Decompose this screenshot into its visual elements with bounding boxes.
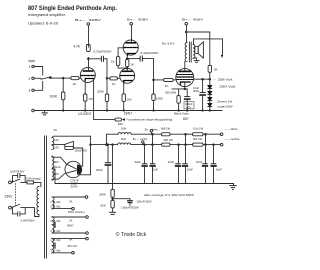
capacitor 10uF 400V screen [202, 78, 204, 80]
wire W1 to rectifier filament [73, 148, 82, 166]
pentode 807 grid g1 [177, 74, 193, 76]
svg-text:22uF: 22uF [152, 168, 159, 172]
wire raw heater line [52, 136, 91, 137]
wire feedback from V1 cathode [94, 79, 115, 120]
svg-text:B+ ← rechts: B+ ← rechts [133, 137, 148, 141]
ground symbol amp [44, 111, 46, 113]
pentode 807 plate [179, 70, 190, 72]
svg-text:10uF: 10uF [216, 167, 223, 171]
resistor 240K divider [111, 189, 114, 197]
svg-text:4,7K: 4,7K [74, 44, 81, 48]
svg-text:© Triode Dick: © Triode Dick [116, 231, 147, 238]
terminal B+ rechts out [220, 143, 223, 146]
resistor 5k6 1W rechts [193, 143, 203, 146]
svg-text:390/10W: 390/10W [165, 90, 177, 94]
svg-text:15uF: 15uF [196, 160, 203, 164]
transformer PT primary coil [37, 187, 39, 215]
wire stopper to V2 grid [117, 77, 120, 79]
wire OT primary to 807 plate [184, 62, 186, 71]
svg-text:0,047/630V: 0,047/630V [10, 169, 24, 173]
mains terminal L [9, 181, 12, 184]
svg-text:6k8 1W: 6k8 1W [161, 127, 171, 131]
wire jack2 to switch [34, 77, 40, 79]
triode V1 cathode [85, 79, 93, 81]
feedback arrow [122, 118, 125, 121]
svg-text:100uF/160V: 100uF/160V [137, 199, 152, 203]
svg-text:1,5V: 1,5V [53, 138, 59, 142]
winding W1 rectifier heater [52, 138, 54, 150]
svg-text:40V: 40V [186, 105, 191, 109]
svg-text:B+← 308V: B+← 308V [75, 18, 101, 22]
capacitor C1 0.33uF/500V [100, 56, 102, 61]
svg-text:6SN7: 6SN7 [124, 112, 132, 116]
svg-text:22uF: 22uF [168, 160, 175, 164]
svg-text:380V: 380V [52, 160, 59, 164]
wire node down to grid row [106, 59, 108, 94]
triode V2 grid [124, 47, 137, 49]
svg-text:350mA: 350mA [52, 165, 61, 169]
svg-text:6SN7: 6SN7 [67, 224, 74, 228]
triode V2 plate [126, 42, 135, 44]
input jack 1 [32, 65, 34, 67]
wire W3 top [52, 196, 85, 198]
svg-text:1K: 1K [73, 82, 77, 86]
wire 220K to ground bus [106, 102, 108, 111]
svg-text:1K5: 1K5 [126, 98, 132, 102]
capacitor bank pair1 right 22uF [152, 133, 154, 135]
wire 1K to V1 grid [79, 77, 81, 79]
capacitor bank pair2 left 22uF [178, 144, 180, 146]
resistor 390R/10W 807 cathode [178, 89, 180, 96]
resistor 220K [105, 94, 108, 102]
resistor 62K divider [111, 200, 114, 208]
svg-text:Intergrated amplifier.: Intergrated amplifier. [28, 13, 66, 17]
wire to primary bottom [21, 208, 39, 217]
svg-text:1,75 Volt: 1,75 Volt [50, 200, 60, 204]
ground symbol psu [233, 184, 235, 186]
switch mains top [11, 179, 19, 182]
snubber cap bottom 0,047/630V [13, 208, 18, 214]
resistor 1K5 V3 cathode [122, 94, 125, 102]
triode V3 cathode [124, 81, 133, 83]
wire W2 center tap to ground [52, 169, 55, 184]
input jack 2 [32, 77, 34, 79]
wire 1K5 to ground [123, 101, 125, 110]
svg-text:3A: 3A [54, 128, 58, 132]
node plate V1 junction [88, 58, 90, 60]
wire jack1 to contact [34, 67, 42, 76]
svg-text:100K: 100K [156, 96, 163, 100]
svg-text:Black Gate: Black Gate [174, 112, 189, 116]
ground bus amp [32, 109, 35, 112]
transformer PT core [44, 136, 46, 258]
winding W3 heater 6SN7 [52, 197, 54, 209]
wire SRPP out to C2 [127, 58, 140, 60]
wire W1 mid tap [52, 144, 64, 146]
resistor 1K 807 grid stopper [164, 78, 174, 81]
svg-text:*voorkeure tegenkoppeling: *voorkeure tegenkoppeling [126, 117, 172, 121]
resistor 5K screen [208, 65, 211, 72]
wire secondary top to feedback tap [194, 39, 223, 55]
svg-text:3,15 Volt: 3,15 Volt [50, 219, 60, 223]
power supply main rail row2 [91, 144, 118, 146]
wire plate node to C1 [88, 58, 101, 60]
svg-text:10H: 10H [121, 137, 127, 141]
triode V1 grid [81, 75, 94, 77]
wire 5K to screen node [209, 72, 211, 79]
svg-text:Ra: 5-8 K: Ra: 5-8 K [162, 42, 175, 46]
wire to 807 grid stopper [154, 79, 164, 81]
node screen feed junction [185, 31, 187, 33]
svg-text:3: 3 [29, 89, 31, 93]
power supply rail row1 links [107, 134, 119, 144]
resistor 100K input [62, 92, 65, 100]
svg-text:807 Single Ended Penthode Amp.: 807 Single Ended Penthode Amp. [28, 5, 117, 12]
node B+ riser junction [90, 144, 92, 146]
capacitor C2 0.33uF/500V [139, 56, 141, 61]
svg-text:3,15 Volt: 3,15 Volt [50, 249, 60, 253]
svg-text:0,33uF/630V: 0,33uF/630V [141, 51, 159, 55]
svg-text:2A: 2A [69, 200, 72, 204]
resistor 5k6 1W links [193, 133, 203, 136]
node input junction [62, 77, 64, 79]
ground speaker return [193, 57, 196, 59]
svg-text:5k6 1W: 5k6 1W [193, 137, 203, 141]
svg-text:Updated: 6-9-20: Updated: 6-9-20 [28, 22, 58, 26]
zener stack [208, 86, 212, 107]
wire 1K5 to ground [84, 101, 86, 110]
resistor 6k8 1W rechts [162, 143, 170, 146]
ground divider [112, 208, 114, 212]
svg-text:1K: 1K [111, 60, 115, 64]
svg-text:230V: 230V [5, 194, 14, 198]
wire to grid stopper V2 [107, 77, 110, 79]
svg-text:Zeners 1W: Zeners 1W [218, 100, 233, 104]
wire B+ riser [90, 136, 92, 175]
capacitor 100uF 40V cathode bypass [186, 89, 188, 96]
node divider junction [112, 198, 114, 200]
wire 1K cathode res to junction [126, 67, 128, 71]
svg-text:6SN7 (buizen): 6SN7 (buizen) [68, 210, 85, 214]
triode V1 plate [84, 70, 93, 72]
svg-text:5 (x) 1W: 5 (x) 1W [193, 127, 204, 131]
wire V2 grid to 1K grid resistor [118, 48, 124, 57]
pentode 807 envelope [176, 69, 194, 87]
transformer OT primary [185, 43, 187, 62]
node 807 grid junction [153, 79, 155, 81]
wire node to 1K [63, 77, 71, 79]
svg-text:380V: 380V [52, 172, 59, 176]
svg-text:B+← 450V: B+← 450V [182, 18, 203, 22]
svg-text:1,5V: 1,5V [53, 145, 59, 149]
resistor W1 parallel [64, 145, 66, 147]
svg-text:1: 1 [29, 65, 31, 69]
wire input node down to 100K [62, 78, 64, 92]
resistor 4.7K [86, 45, 90, 52]
choke 10H links [118, 133, 131, 135]
svg-text:240K: 240K [99, 192, 106, 196]
svg-text:Input: Input [28, 59, 35, 63]
svg-text:62K: 62K [101, 203, 106, 207]
node SRPP output tap [126, 58, 128, 60]
capacitor bank pair3 right 10uF [213, 144, 215, 146]
wire B+358 to V2 plate [131, 25, 133, 42]
fuse 0,5A [21, 181, 27, 183]
triode V3 grid [121, 75, 134, 77]
resistor 6k8 1W links [162, 133, 170, 136]
wire W2 top to rectifier plate [52, 157, 66, 163]
node B+ 358V terminal [130, 22, 133, 25]
transformer OT core [189, 42, 191, 62]
wire V2 cathode down [126, 54, 128, 59]
resistor 1K V2 grid [116, 57, 119, 66]
svg-text:100uF/550V: 100uF/550V [121, 205, 139, 209]
svg-text:1K: 1K [165, 84, 169, 88]
wire rectifier filament to B+ riser [80, 174, 91, 176]
triode V2 cathode [127, 54, 135, 56]
feedback tap arrow [221, 55, 223, 58]
pentode 807 grid g2 [177, 76, 193, 78]
wire jack3 to contact [34, 82, 42, 91]
bus junction dots [63, 110, 64, 111]
capacitor bank pair2 right 15uF [185, 133, 187, 135]
svg-text:100uF/25V: 100uF/25V [75, 149, 88, 153]
resistor 1K grid stopper V1 [71, 77, 79, 80]
wire B+308 to R 4.7K [88, 25, 90, 47]
winding W4 heater 6SN7 CT [52, 217, 54, 233]
speaker [195, 46, 198, 53]
wire V3 cathode to 1K5 [123, 82, 125, 94]
svg-text:33uF: 33uF [135, 160, 142, 164]
center tap W5 [52, 245, 55, 247]
switch W1 [64, 142, 73, 145]
capacitor bank pair1 left 33uF [144, 144, 146, 146]
wire C1 to node [104, 58, 107, 60]
wire 807 cathode network [184, 83, 186, 89]
wire screen feed across [186, 32, 210, 65]
svg-text:6k8 1W: 6k8 1W [164, 138, 174, 142]
svg-text:400V: 400V [193, 89, 199, 93]
resistor 82K feedback [115, 118, 122, 121]
svg-text:totaal 250V: totaal 250V [218, 105, 233, 109]
svg-text:1K: 1K [130, 63, 134, 67]
svg-text:2: 2 [29, 77, 31, 81]
triode V1 1/2 6SN7 envelope [80, 68, 95, 83]
divider feed wire [112, 144, 114, 146]
svg-text:250 Volt: 250 Volt [220, 85, 236, 89]
switch selector blade [41, 77, 50, 79]
pentode 807 cathode [181, 82, 191, 84]
svg-text:5K: 5K [214, 68, 218, 72]
wire 100K to ground [153, 101, 155, 111]
svg-text:220K: 220K [97, 90, 104, 94]
rectifier tube CV378 [65, 161, 81, 177]
switch gang dotted link [15, 184, 17, 206]
triode V2 SRPP upper envelope [123, 40, 138, 55]
svg-text:0,047/630V: 0,047/630V [21, 219, 35, 223]
triode V3 SRPP lower envelope [120, 68, 135, 83]
switch mains bottom [11, 204, 19, 207]
resistor 100K 807 grid leak [152, 94, 155, 101]
svg-text:B+← 358V: B+← 358V [127, 18, 148, 22]
wire stopper to 807 grid [173, 79, 176, 81]
svg-text:2A: 2A [69, 218, 72, 222]
wire W2 bottom to rectifier plate [52, 174, 65, 180]
capacitor 100uF/160V divider [113, 198, 130, 200]
terminal B+ links out [220, 133, 223, 136]
center tap W4 [52, 224, 55, 226]
resistor 1K5 V1 cathode [84, 94, 87, 101]
node junction V3 plate [126, 67, 128, 69]
svg-text:1/2 6SN7: 1/2 6SN7 [78, 112, 92, 116]
triode V3 plate [123, 70, 132, 72]
wire 100K to ground [62, 100, 64, 111]
node junction grid row [106, 78, 108, 80]
capacitor bank pair3 left 15uF [205, 133, 207, 135]
winding W5 heater 807 CT [52, 238, 54, 253]
wire 1K grid res to junction [118, 66, 127, 69]
snubber cap top 0,047/630V [13, 176, 18, 183]
svg-text:←—links: ←—links [225, 127, 239, 131]
node B+ 308V terminal [87, 23, 90, 26]
input jack 3 [32, 89, 34, 91]
transformer OT secondary [193, 45, 195, 59]
choke 10H rechts [118, 143, 131, 145]
wire C2 to 807 grid node [143, 59, 154, 94]
svg-text:15uF: 15uF [187, 168, 194, 172]
svg-text:Alle overige C's 100 Volt MKP: Alle overige C's 100 Volt MKP [144, 193, 194, 197]
svg-text:0,33uF/630V: 0,33uF/630V [94, 49, 112, 53]
svg-text:0,5A (traag): 0,5A (traag) [26, 176, 41, 180]
ground bus psu [55, 183, 233, 185]
mains terminal N [9, 206, 12, 209]
node screen junction [209, 78, 211, 80]
pentode 807 grid g3 [177, 79, 193, 81]
node B+ 450V terminal [185, 22, 188, 25]
wire switch to input node [50, 77, 63, 79]
svg-text:100K: 100K [50, 95, 58, 99]
capacitor 30uF first filter [107, 144, 109, 146]
resistor 1K V2 cathode [126, 59, 129, 66]
svg-text:← 258 Volt: ← 258 Volt [213, 78, 233, 82]
winding W2 HV 300-0-300 [52, 156, 54, 180]
svg-text:3,15 Volt: 3,15 Volt [50, 229, 60, 233]
resistor 1K grid stopper V2 [110, 77, 118, 80]
svg-text:1,75 Volt: 1,75 Volt [50, 238, 60, 242]
svg-text:1K: 1K [112, 82, 116, 86]
svg-text:30uF: 30uF [96, 168, 103, 172]
wire W3 bottom [52, 208, 72, 210]
wire 807 screen to zener node [194, 78, 210, 80]
wire B+450 to OT primary [186, 25, 188, 43]
svg-text:807: 807 [183, 117, 189, 121]
wire V1 cathode to 1K5 [84, 81, 86, 95]
svg-text:3,15 Volt: 3,15 Volt [50, 205, 60, 209]
svg-text:←—rechts: ←—rechts [225, 137, 241, 141]
wire R4.7K to plate V1 [88, 58, 90, 71]
svg-text:6A: 6A [69, 238, 72, 242]
svg-text:5U4G: 5U4G [70, 185, 77, 189]
svg-text:10H: 10H [121, 127, 127, 131]
svg-text:807 Ch1: 807 Ch1 [68, 244, 78, 248]
wire fuse to primary [34, 182, 41, 186]
